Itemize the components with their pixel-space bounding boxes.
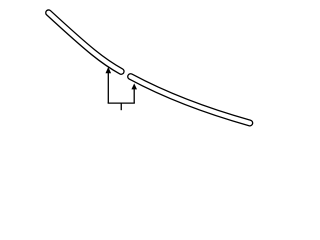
curved band left segment (outline) xyxy=(49,13,122,72)
right arrowhead xyxy=(131,83,137,89)
left arrowhead xyxy=(106,67,112,73)
left arrow shaft xyxy=(107,73,109,104)
right arrow shaft xyxy=(133,89,135,103)
bracket tick xyxy=(120,103,122,110)
curved band right segment (outline) xyxy=(131,77,250,123)
bracket horizontal line xyxy=(108,102,135,104)
